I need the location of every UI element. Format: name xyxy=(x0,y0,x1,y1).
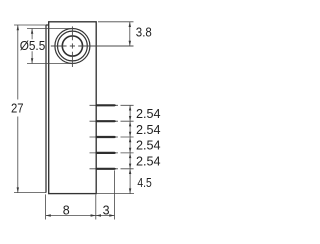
pin 2 xyxy=(90,120,119,122)
barrel outer circle Ø5.5 xyxy=(55,29,90,64)
dimension 27 line xyxy=(17,25,19,193)
svg-text:2.54: 2.54 xyxy=(136,123,161,137)
dimension chain arrows xyxy=(129,105,131,193)
barrel inner circle xyxy=(62,36,82,56)
dimension 3.8 line xyxy=(129,22,131,46)
dimension 8/3 line xyxy=(46,215,115,217)
svg-text:8: 8 xyxy=(63,204,70,218)
svg-text:4.5: 4.5 xyxy=(137,176,151,190)
pin 1 xyxy=(90,104,119,106)
pin 5 xyxy=(90,168,119,170)
dimension 27 arrows xyxy=(17,25,19,193)
dimension chain 2.54/4.5 line xyxy=(129,105,131,193)
dimension 27 extension lines xyxy=(14,25,46,193)
dimension Ø5.5 line xyxy=(31,29,33,64)
barrel middle circle xyxy=(58,31,88,61)
barrel horizontal centerline (also 3.8 lower extension) xyxy=(51,45,134,47)
pin 4 xyxy=(90,152,119,154)
dimension 3.8 extension line top xyxy=(98,21,134,23)
pin 3 xyxy=(90,136,119,138)
svg-text:Ø5.5: Ø5.5 xyxy=(20,39,46,53)
dimension Ø5.5 arrows xyxy=(31,29,33,64)
svg-text:3: 3 xyxy=(103,204,110,218)
barrel vertical centerline xyxy=(71,26,73,67)
svg-text:2.54: 2.54 xyxy=(136,139,161,153)
dimension 8/3 arrows xyxy=(46,214,115,216)
pin pitch extension dashes xyxy=(121,105,134,169)
dimension 8/3 extension lines xyxy=(46,170,115,219)
body front plate outline xyxy=(49,22,96,194)
dimension 3.8 arrows xyxy=(129,22,131,46)
svg-text:2.54: 2.54 xyxy=(136,107,161,121)
svg-text:27: 27 xyxy=(11,102,24,116)
svg-text:2.54: 2.54 xyxy=(136,155,161,169)
dimension Ø5.5 extension lines xyxy=(27,29,75,64)
body left side wall xyxy=(46,25,49,193)
svg-text:3.8: 3.8 xyxy=(136,26,152,40)
bottom-right extension of body bottom (for 4.5) xyxy=(96,193,134,195)
